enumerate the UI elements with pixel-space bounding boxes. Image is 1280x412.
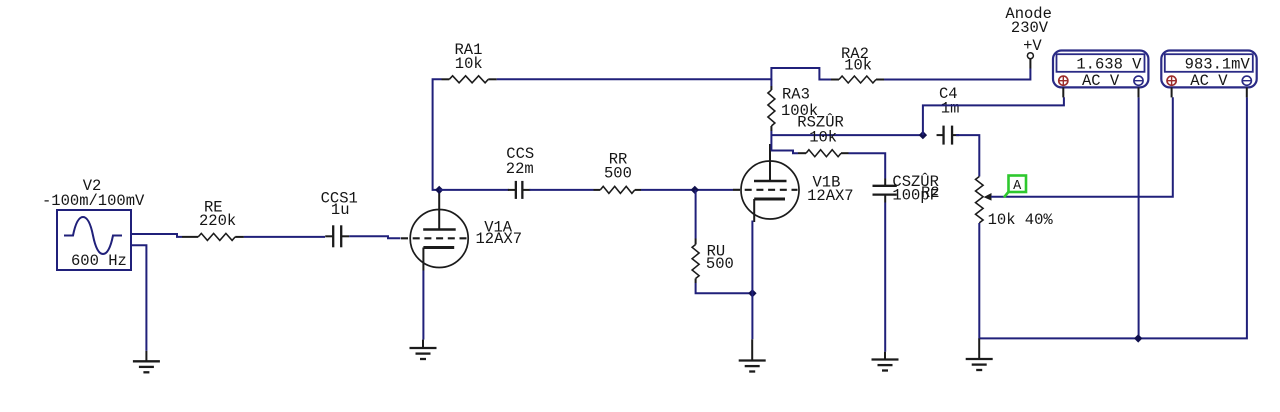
svg-text:10k 40%: 10k 40%: [988, 211, 1054, 229]
label V1A: [476, 219, 523, 249]
svg-text:+V: +V: [1023, 37, 1042, 55]
triode V1B 12AX7: [733, 144, 799, 222]
node C4 junction: [919, 131, 927, 139]
capacitor CSZUR: [873, 173, 940, 205]
wire RSZUR to CSZUR: [849, 153, 886, 178]
voltmeter M1 1.638 V: [1053, 51, 1148, 98]
resistor RE: [182, 199, 244, 241]
voltage source V2: [57, 210, 131, 270]
wire RA3 to V1B plate node: [770, 131, 772, 151]
resistor RA1: [442, 41, 497, 83]
wire M2 plus to pot wiper: [991, 97, 1173, 196]
svg-text:-100m/100mV: -100m/100mV: [42, 192, 145, 210]
svg-text:500: 500: [604, 165, 632, 183]
potentiometer P1 10k 40%: [976, 177, 1054, 230]
wire RA1 to RA2 with jog: [497, 68, 831, 80]
resistor RU: [692, 190, 734, 283]
wire V1A anode up to RA1: [433, 79, 442, 190]
svg-text:10k: 10k: [844, 57, 872, 75]
svg-text:600 Hz: 600 Hz: [71, 252, 127, 270]
resistor RR: [594, 151, 642, 194]
wire RE to CCS1: [244, 236, 325, 238]
svg-text:10k: 10k: [455, 55, 483, 73]
capacitor CCS1: [321, 190, 358, 248]
svg-text:RA3: RA3: [782, 86, 810, 104]
wire V2 negative to ground: [131, 245, 146, 351]
capacitor C4: [937, 85, 960, 145]
wire C4 to potentiometer: [956, 135, 979, 176]
resistor RA3: [768, 80, 818, 132]
wire V1B cathode down: [751, 221, 753, 340]
resistor RSZUR: [797, 114, 848, 157]
wire anode node to C4 junction: [771, 134, 923, 136]
svg-text:1m: 1m: [941, 100, 960, 118]
svg-text:1u: 1u: [331, 201, 350, 219]
wire M1 minus down to rail: [1138, 97, 1140, 338]
potentiometer wiper arrow: [984, 193, 992, 201]
wire M1 plus to C4 node: [923, 97, 1064, 135]
node cathode/RU junction: [748, 289, 756, 297]
callout A on wiper: [1004, 176, 1026, 198]
svg-text:12AX7: 12AX7: [476, 230, 523, 248]
+V supply terminal Anode 230V: [1005, 5, 1052, 69]
triode V1A 12AX7: [401, 193, 468, 271]
svg-text:AC V: AC V: [1082, 72, 1120, 90]
svg-text:R2: R2: [921, 184, 940, 202]
svg-text:22m: 22m: [506, 160, 534, 178]
ground under V1B: [739, 339, 766, 371]
ground under V1A: [410, 340, 437, 359]
wire RA2 to +V terminal: [884, 69, 1030, 80]
ground under V2: [133, 351, 160, 372]
node RR/RU junction: [691, 186, 699, 194]
label V1B: [807, 173, 854, 205]
wire V2 output to RE: [131, 234, 182, 237]
wire CCS to RR: [530, 189, 594, 191]
svg-text:500: 500: [706, 255, 734, 273]
value label -100m/100mV: [42, 192, 145, 210]
wire CCS1 to V1A grid: [349, 236, 400, 238]
ground under CSZUR: [872, 352, 899, 371]
svg-text:12AX7: 12AX7: [807, 187, 854, 205]
wire RU bottom to V1B cathode: [696, 283, 753, 293]
svg-text:A: A: [1013, 179, 1022, 194]
wire RR to V1B grid: [641, 189, 733, 191]
resistor RA2: [831, 45, 884, 83]
capacitor CCS: [506, 145, 534, 199]
label V2: [83, 177, 102, 195]
wire V1A cathode to ground: [422, 271, 424, 340]
wire CSZUR to ground: [884, 203, 886, 352]
node V1A anode junction: [435, 186, 443, 194]
wire pot bottom rail: [979, 97, 1247, 338]
svg-text:10k: 10k: [809, 129, 837, 147]
voltmeter M2 983.1mV: [1161, 51, 1256, 98]
svg-text:220k: 220k: [199, 212, 236, 230]
ground under potentiometer: [966, 338, 993, 370]
node M1 minus on rail: [1134, 334, 1142, 342]
wire to RSZUR: [771, 151, 798, 154]
svg-text:230V: 230V: [1011, 19, 1049, 37]
svg-text:AC V: AC V: [1190, 72, 1228, 90]
wire V1A anode to CCS: [439, 189, 509, 191]
